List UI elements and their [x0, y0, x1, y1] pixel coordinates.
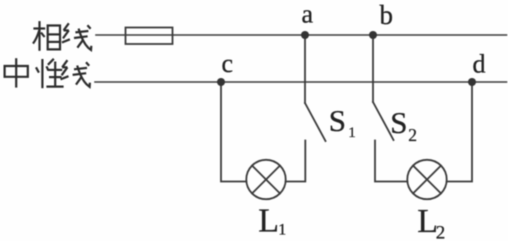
- svg-text:b: b: [380, 0, 394, 30]
- svg-text:d: d: [473, 49, 486, 78]
- svg-text:2: 2: [436, 223, 446, 241]
- svg-text:L: L: [258, 203, 279, 240]
- svg-text:1: 1: [348, 125, 356, 141]
- svg-text:a: a: [302, 0, 314, 29]
- svg-text:S: S: [390, 105, 407, 140]
- svg-text:1: 1: [278, 222, 286, 239]
- svg-text:2: 2: [408, 125, 417, 145]
- svg-text:S: S: [329, 103, 346, 138]
- svg-text:c: c: [222, 49, 234, 78]
